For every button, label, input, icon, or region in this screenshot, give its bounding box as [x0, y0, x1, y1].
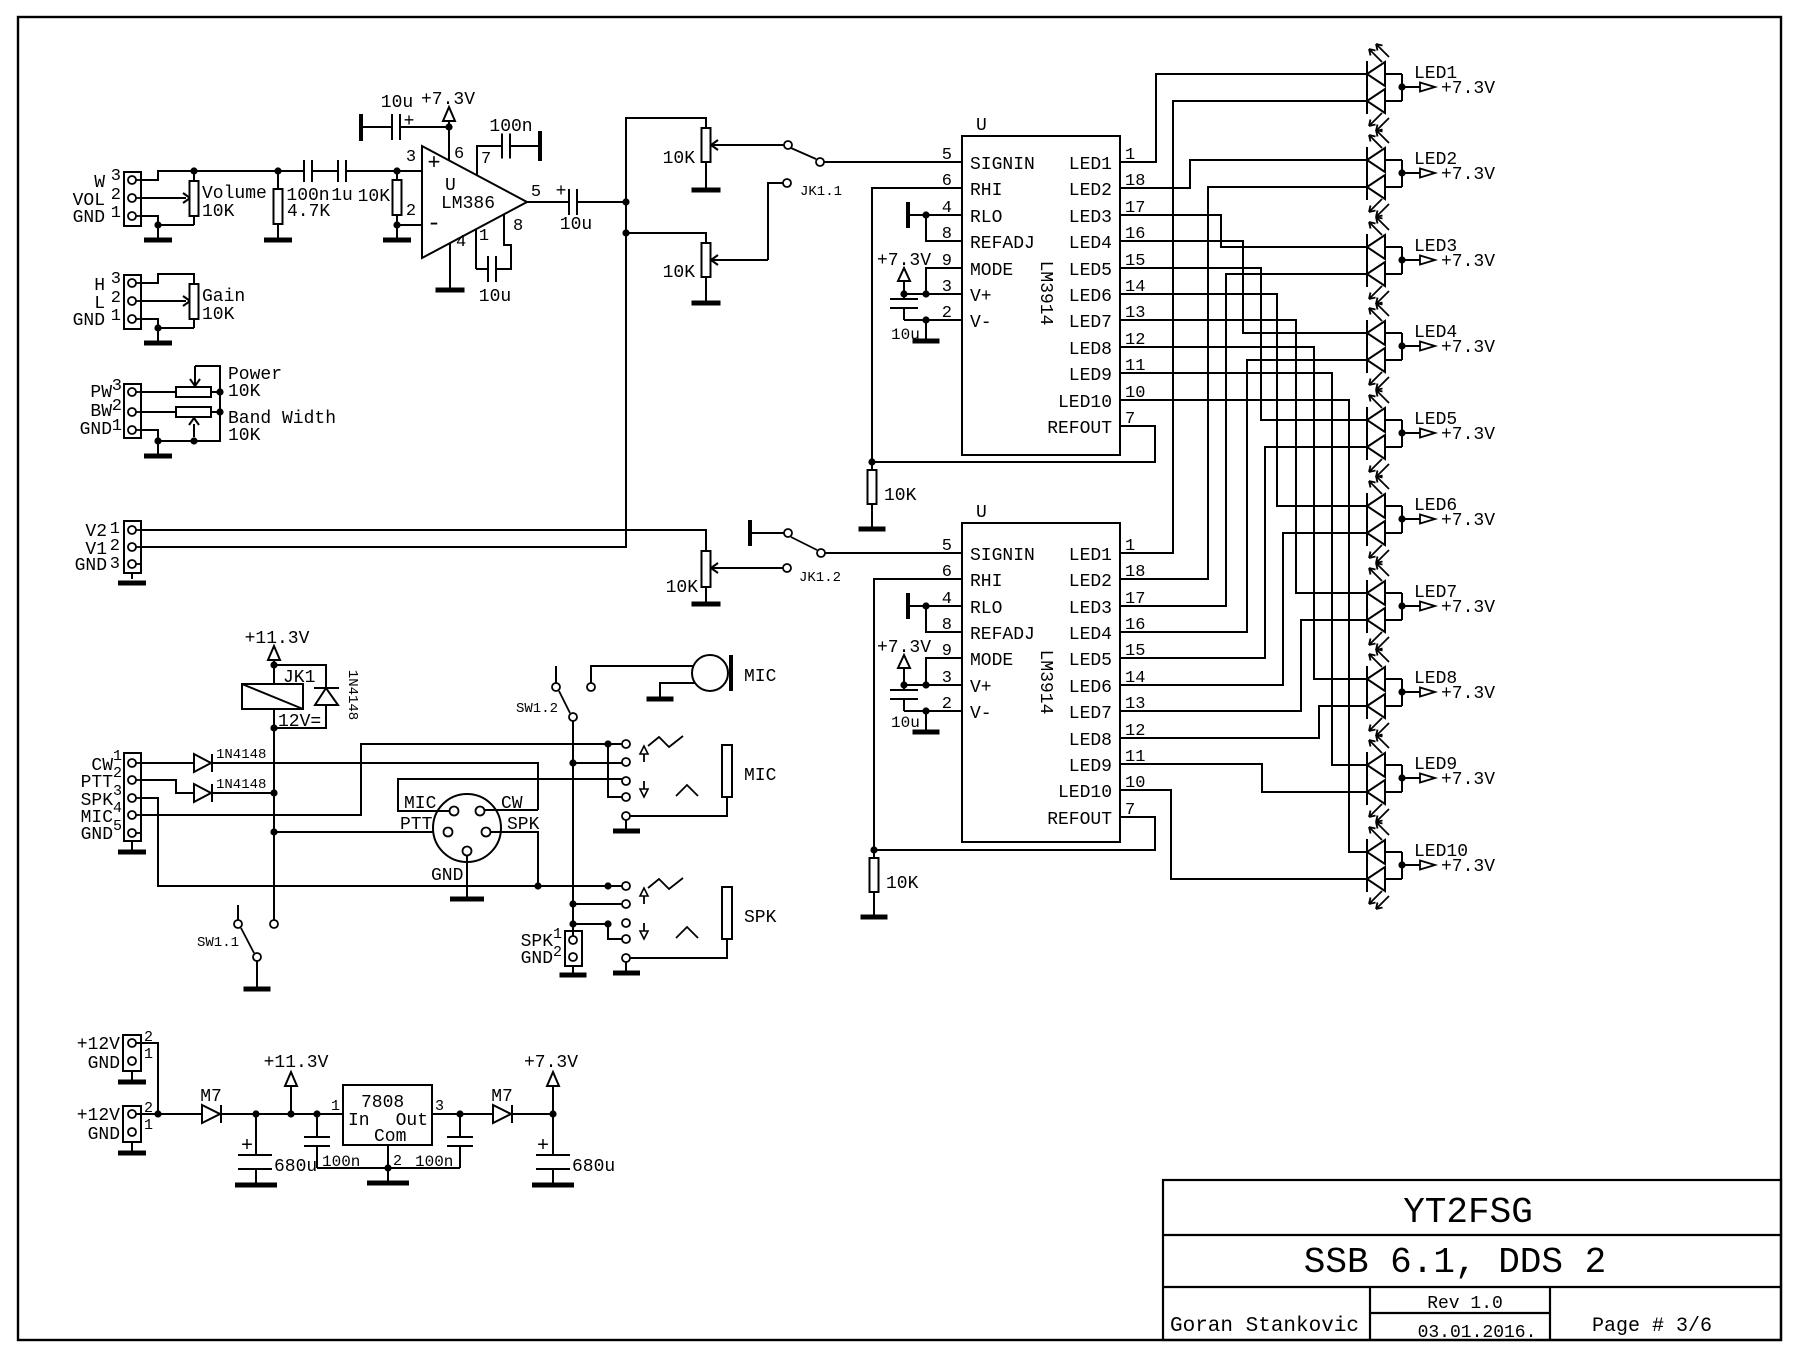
node LED1 anode — [1398, 83, 1405, 90]
wire CN2 pin3 to Gain pot top — [141, 274, 194, 284]
wire U2 LED6 output to LED6 bottom — [1120, 533, 1367, 685]
diode 1N4148 flyback — [274, 688, 339, 728]
svg-text:+7.3V: +7.3V — [1441, 684, 1495, 704]
diode M7 input — [202, 1105, 221, 1123]
svg-text:3: 3 — [435, 1098, 444, 1115]
svg-text:SPK: SPK — [744, 908, 777, 928]
capacitor 1u input — [338, 160, 346, 182]
svg-text:+12V: +12V — [77, 1035, 120, 1055]
node DIN PTT junction — [270, 828, 277, 835]
svg-text:+7.3V: +7.3V — [1441, 338, 1495, 358]
terminal bar JK1.2 throw1 — [748, 520, 752, 546]
svg-text:V+: V+ — [970, 678, 992, 698]
svg-text:LED10: LED10 — [1058, 393, 1112, 413]
U2 pin 2 name V- — [942, 695, 992, 724]
svg-text:M7: M7 — [200, 1087, 222, 1107]
svg-text:8: 8 — [513, 217, 523, 236]
power +11.3V arrow relay — [268, 646, 280, 665]
capacitor 10u U1 supply — [890, 294, 918, 320]
wire audio branch to pot2 — [626, 233, 706, 243]
wire CN8 pin2 to diode — [136, 1113, 202, 1115]
U1 pin 17 name LED3 — [1069, 199, 1146, 228]
svg-text:GND: GND — [88, 1125, 120, 1145]
svg-text:1: 1 — [331, 1098, 340, 1115]
pin numbers CN5 1-5 — [113, 748, 122, 835]
svg-text:JK1.1: JK1.1 — [800, 184, 842, 200]
U1 pin 12 name LED8 — [1069, 331, 1146, 360]
connector CN1 (W/VOL/GND) 3-pin header — [124, 172, 141, 226]
wire U2 LED9 output to LED9 bottom — [1120, 764, 1367, 792]
jack SPK ring spring — [676, 927, 698, 938]
svg-text:Volume: Volume — [202, 184, 267, 204]
svg-text:+11.3V: +11.3V — [264, 1053, 329, 1073]
wire mic to ground — [660, 683, 695, 697]
wire U1 LED4 output to LED4 top — [1120, 241, 1367, 333]
svg-text:In: In — [348, 1111, 370, 1131]
svg-text:+7.3V: +7.3V — [1441, 425, 1495, 445]
wire U2 RHI — [874, 579, 962, 850]
ground U2 V- — [913, 711, 940, 732]
wire MIC jack tip to contact4 — [608, 744, 622, 797]
diode D2 1N4148 PTT — [141, 780, 212, 802]
wire U2 LED2 output to LED2 bottom — [1120, 187, 1367, 579]
node SPK tie — [569, 920, 576, 927]
node rail at 4.7K — [274, 167, 281, 174]
svg-text:1: 1 — [111, 307, 121, 326]
wire DIN PTT row — [274, 831, 444, 833]
svg-text:+: + — [537, 1135, 549, 1158]
U2 pin 7 name REFOUT — [1047, 801, 1135, 830]
node 100n output cap — [456, 1110, 463, 1117]
power +7.3V arrow U1 — [877, 251, 931, 294]
U2 pin 1 name LED1 — [1069, 537, 1135, 566]
power +7.3V arrow LED2 — [1402, 169, 1435, 178]
svg-text:LED9: LED9 — [1069, 757, 1112, 777]
LED3 dual LED — [1367, 217, 1402, 304]
svg-text:GND: GND — [521, 949, 553, 969]
node LED10 anode — [1398, 861, 1405, 868]
jack SPK contacts — [622, 882, 630, 962]
svg-text:PW: PW — [90, 383, 112, 403]
node LED5 anode — [1398, 429, 1405, 436]
svg-text:2: 2 — [553, 944, 562, 961]
svg-text:+7.3V: +7.3V — [1441, 857, 1495, 877]
LED10 dual LED — [1367, 822, 1402, 909]
node U2 RHI/REFOUT — [870, 846, 877, 853]
LED1 dual LED — [1367, 44, 1402, 131]
wire U2 RLO to REFADJ — [908, 602, 962, 632]
svg-text:SW1.1: SW1.1 — [197, 935, 239, 951]
ground — [144, 225, 172, 240]
svg-text:LED8: LED8 — [1069, 340, 1112, 360]
wire 7808 Com to ground rail — [387, 1145, 389, 1168]
svg-text:Com: Com — [374, 1127, 406, 1147]
U1 pin 7 name REFOUT — [1047, 410, 1135, 439]
wire CW line to DIN — [212, 763, 538, 810]
capacitor 100n 7808 input — [304, 1114, 330, 1168]
svg-text:GND: GND — [80, 420, 112, 440]
svg-text:10u: 10u — [891, 714, 920, 732]
wire M7 output to +7.3V node — [512, 1113, 553, 1115]
node +12V input — [154, 1110, 161, 1117]
svg-text:+11.3V: +11.3V — [245, 629, 310, 649]
svg-text:U: U — [976, 503, 987, 523]
jack MIC tip spring — [648, 736, 683, 747]
LED4 dual LED — [1367, 303, 1402, 390]
svg-text:U: U — [445, 176, 456, 196]
svg-text:LED1: LED1 — [1069, 546, 1112, 566]
svg-text:2: 2 — [406, 202, 416, 221]
svg-text:10u: 10u — [560, 215, 592, 235]
wire U2 LED1 output to LED1 bottom — [1120, 101, 1367, 553]
svg-text:RHI: RHI — [970, 181, 1002, 201]
wire CN7 to +12V node — [136, 1043, 158, 1114]
U2 pin 13 name LED7 — [1069, 695, 1146, 724]
capacitor 100n pin7 LM386 — [502, 134, 540, 159]
wire M7 to 7808 In — [221, 1113, 343, 1115]
U2 pin 11 name LED9 — [1069, 748, 1146, 777]
wire U2 MODE to V+ — [926, 658, 962, 685]
wire SPK jack contact3 tie — [573, 923, 608, 925]
svg-text:10K: 10K — [886, 874, 919, 894]
ground — [144, 328, 172, 343]
op-amp U LM386 — [422, 146, 527, 258]
svg-text:1N4148: 1N4148 — [216, 777, 266, 793]
ground CN4 pin3 — [118, 573, 146, 583]
svg-text:JK1: JK1 — [283, 668, 315, 688]
power +7.3V arrow LED4 — [1402, 342, 1435, 351]
wire CN2 pin1 to ground node — [141, 319, 158, 328]
svg-text:5: 5 — [113, 818, 122, 835]
svg-text:SIGNIN: SIGNIN — [970, 155, 1035, 175]
power +7.3V arrow LM386 — [443, 107, 455, 127]
svg-text:GND: GND — [75, 556, 107, 576]
svg-text:U: U — [976, 116, 987, 136]
svg-text:LED7: LED7 — [1069, 704, 1112, 724]
pin numbers CN3 3/2/1 — [112, 377, 122, 436]
wire JK1.2 throw1 — [752, 532, 784, 534]
svg-text:BW: BW — [90, 402, 112, 422]
svg-text:10K: 10K — [228, 382, 261, 402]
capacitor 100n 7808 output — [447, 1114, 473, 1168]
power +7.3V arrow LED7 — [1402, 602, 1435, 611]
wire relay top to flyback diode — [274, 665, 326, 688]
svg-text:LED4: LED4 — [1069, 625, 1112, 645]
node wiper-ground junction — [190, 437, 197, 444]
node LED7 anode — [1398, 602, 1405, 609]
capacitor 10u pins1-8 LM386 — [476, 256, 496, 282]
svg-text:LED5: LED5 — [1069, 651, 1112, 671]
U1 pin 13 name LED7 — [1069, 304, 1146, 333]
pin numbers CN8 2/1 — [144, 1100, 153, 1134]
power +11.3V arrow supply — [285, 1072, 297, 1114]
wire U2 LED7 output to LED7 bottom — [1120, 620, 1367, 711]
svg-text:+12V: +12V — [77, 1106, 120, 1126]
ground pot1 — [692, 189, 721, 191]
svg-text:GND: GND — [73, 311, 105, 331]
capacitor 10u output — [569, 189, 577, 215]
connector CN8 (+12V/GND) lower — [123, 1106, 141, 1142]
svg-text:Page # 3/6: Page # 3/6 — [1592, 1315, 1712, 1338]
svg-text:GND: GND — [81, 825, 113, 845]
svg-text:+7.3V: +7.3V — [1441, 598, 1495, 618]
svg-text:MODE: MODE — [970, 261, 1013, 281]
wire U2 LED5 output to LED5 bottom — [1120, 447, 1367, 658]
power +7.3V arrow LED3 — [1402, 256, 1435, 265]
wire to MIC jack contact2 — [573, 762, 622, 764]
wire U1 RHI — [872, 188, 962, 462]
svg-text:1: 1 — [144, 1046, 153, 1063]
svg-text:LED1: LED1 — [1069, 155, 1112, 175]
node ground CN1 — [154, 221, 161, 228]
jack SPK switch arrows — [640, 888, 648, 939]
pin numbers CN1 3/2/1 — [111, 167, 121, 223]
svg-text:+7.3V: +7.3V — [1441, 165, 1495, 185]
power +7.3V arrow LED10 — [1402, 861, 1435, 870]
svg-text:680u: 680u — [274, 1157, 317, 1177]
node +11.3V supply — [287, 1110, 294, 1117]
IC U LM3914 lower body — [962, 523, 1120, 842]
svg-text:2: 2 — [111, 186, 121, 205]
svg-text:3: 3 — [111, 270, 121, 289]
svg-text:RLO: RLO — [970, 208, 1002, 228]
power +7.3V arrow LED6 — [1402, 515, 1435, 524]
wire CN5 MIC riser — [141, 744, 622, 815]
svg-text:1: 1 — [111, 204, 121, 223]
svg-text:JK1.2: JK1.2 — [799, 570, 841, 586]
node SPK jack contact1 — [604, 882, 611, 889]
svg-text:+: + — [241, 1135, 253, 1158]
power +7.3V arrow LED9 — [1402, 774, 1435, 783]
resistor 10K U1 ref — [868, 462, 877, 527]
node SW1.2 to MIC jack ring — [569, 759, 576, 766]
svg-text:2: 2 — [111, 289, 121, 308]
connector CN3 (PW/BW/GND) 3-pin header — [124, 384, 141, 438]
svg-text:3: 3 — [406, 148, 416, 167]
ground SW1.1 — [244, 961, 271, 989]
U2 pin 9 name MODE — [942, 642, 1013, 671]
ground LM386 pin4 — [436, 289, 465, 291]
svg-text:1: 1 — [479, 227, 489, 246]
svg-text:LED2: LED2 — [1069, 181, 1112, 201]
svg-text:LED9: LED9 — [1069, 366, 1112, 386]
svg-text:LED10: LED10 — [1058, 783, 1112, 803]
U2 pin 3 name V+ — [942, 669, 992, 698]
svg-text:10K: 10K — [228, 426, 261, 446]
svg-text:10u: 10u — [479, 287, 511, 307]
node Com ground — [384, 1164, 391, 1171]
svg-text:10K: 10K — [358, 187, 391, 207]
connector CN7 (+12V/GND) upper — [123, 1035, 141, 1071]
diode M7 output — [493, 1105, 512, 1123]
U2 pin 8 name REFADJ — [942, 616, 1035, 645]
wire U2 V+ — [900, 681, 962, 688]
wire U1 LED3 output to LED3 top — [1120, 215, 1367, 247]
ground — [264, 233, 292, 240]
wire U1 LED7 output to LED7 top — [1120, 320, 1367, 593]
svg-text:LED7: LED7 — [1069, 313, 1112, 333]
svg-text:GND: GND — [88, 1054, 120, 1074]
U2 pin 14 name LED6 — [1069, 669, 1146, 698]
node ground CN3 — [154, 437, 161, 444]
wire U2 V- — [904, 707, 962, 714]
potentiometer 10K third (pot3) — [702, 551, 784, 604]
U2 pin 10 name LED10 — [1058, 774, 1145, 803]
svg-text:REFADJ: REFADJ — [970, 625, 1035, 645]
LED6 dual LED — [1367, 476, 1402, 563]
pin 8 wire LM386 — [497, 214, 511, 269]
node LED2 anode — [1398, 169, 1405, 176]
svg-text:H: H — [94, 276, 105, 296]
wire U2 LED8 output to LED8 bottom — [1120, 706, 1367, 738]
svg-text:1: 1 — [553, 926, 562, 943]
U1 pin 16 name LED4 — [1069, 225, 1146, 254]
connector CN5 (CW/PTT/SPK/MIC/GND) 5-pin header — [124, 753, 141, 841]
capacitor 680u input — [238, 1114, 272, 1183]
svg-text:RHI: RHI — [970, 572, 1002, 592]
wire U2 REFOUT loop — [874, 817, 1155, 850]
LED5 dual LED — [1367, 390, 1402, 477]
wire Gain pot bottom to ground — [158, 327, 194, 329]
node +7.3V at pin6 — [445, 123, 452, 130]
pin 6 wire LM386 — [448, 127, 450, 160]
node U1 RHI/REFOUT — [868, 458, 875, 465]
node rail at 10K — [393, 167, 400, 174]
svg-text:+: + — [556, 182, 567, 202]
ground CN6 — [560, 966, 587, 975]
ground 7808 Com — [367, 1168, 409, 1183]
U1 pin 8 name REFADJ — [942, 225, 1035, 254]
jack MIC switch arrows — [640, 746, 648, 797]
microphone MIC symbol — [692, 655, 731, 691]
wire U1 V- — [904, 316, 962, 323]
wire CN3 pin1 to ground node — [141, 430, 158, 441]
power +7.3V arrow LED5 — [1402, 429, 1435, 438]
svg-text:5: 5 — [942, 537, 952, 556]
svg-text:V2: V2 — [85, 522, 107, 542]
wire DIN CW pin — [484, 809, 538, 811]
terminal bar 100n pin7 — [538, 131, 542, 161]
svg-text:Goran Stankovic: Goran Stankovic — [1170, 1315, 1359, 1338]
wire signal rail to 100n cap — [194, 170, 304, 172]
svg-text:10K: 10K — [202, 305, 235, 325]
ground 680u output — [532, 1183, 574, 1185]
svg-text:680u: 680u — [572, 1157, 615, 1177]
wire DIN MIC pin loop — [398, 779, 622, 811]
U2 pin 6 name RHI — [942, 563, 1003, 592]
wire JK1.2 to U2 SIGNIN — [825, 552, 962, 554]
node 100n input cap — [313, 1110, 320, 1117]
svg-text:PTT: PTT — [400, 815, 433, 835]
svg-text:10K: 10K — [663, 263, 696, 283]
switch JK1.1 — [783, 141, 824, 187]
wire U1 LED8 output to LED8 top — [1120, 347, 1367, 679]
U1 pin 5 name SIGNIN — [942, 146, 1035, 175]
U1 pin 6 name RHI — [942, 172, 1003, 201]
jack SPK tip spring — [648, 878, 683, 889]
svg-text:2: 2 — [110, 537, 120, 556]
U2 pin 15 name LED5 — [1069, 642, 1146, 671]
svg-text:6: 6 — [454, 145, 464, 164]
IC U LM3914 upper body — [962, 136, 1120, 455]
wire 7808 Out to diode M7 — [432, 1113, 493, 1115]
svg-text:MIC: MIC — [744, 667, 777, 687]
svg-text:LED4: LED4 — [1069, 234, 1112, 254]
svg-text:PTT: PTT — [81, 773, 114, 793]
wire CN5 SPK to speaker line — [141, 798, 622, 886]
ground mic — [647, 697, 674, 699]
connector DIN5 microphone socket — [433, 794, 501, 862]
wire pot2 wiper to JK1.1 throw — [768, 183, 783, 260]
jack MIC body — [630, 745, 732, 816]
wire U1 LED9 output to LED9 top — [1120, 373, 1367, 765]
pin numbers CN2 3/2/1 — [111, 270, 121, 326]
jack SPK body — [630, 887, 732, 958]
U1 pin 9 name MODE — [942, 252, 1013, 281]
svg-text:4: 4 — [113, 800, 122, 817]
pin numbers CN6 1/2 — [553, 926, 562, 961]
potentiometer Volume 10K — [141, 171, 199, 225]
jack MIC ring spring — [676, 785, 698, 796]
svg-text:10K: 10K — [202, 202, 235, 222]
pin numbers CN4 1/2/3 — [110, 520, 120, 574]
svg-text:SSB 6.1, DDS 2: SSB 6.1, DDS 2 — [1304, 1242, 1606, 1283]
svg-text:2: 2 — [113, 765, 122, 782]
LED8 dual LED — [1367, 649, 1402, 736]
svg-text:7808: 7808 — [361, 1093, 404, 1113]
potentiometer 10K second (meter drive 2) — [702, 243, 769, 303]
node LED6 anode — [1398, 515, 1405, 522]
svg-text:10u: 10u — [381, 93, 413, 113]
pin 4 wire LM386 — [449, 243, 451, 290]
ground — [144, 441, 172, 456]
svg-text:5: 5 — [942, 146, 952, 165]
capacitor 10u U2 supply — [890, 685, 918, 711]
capacitor 100n input — [304, 160, 338, 182]
wire supply bottom rail — [317, 1167, 460, 1169]
wire pots right side down to ground rail — [158, 392, 220, 441]
ground U2 ref resistor — [861, 915, 888, 917]
power +7.3V arrow U2 — [877, 638, 931, 685]
terminal bar U1 RLO — [906, 202, 910, 228]
wire JK1.1 to U1 SIGNIN — [824, 161, 962, 163]
pin 1 wire LM386 — [475, 229, 477, 269]
svg-text:3: 3 — [113, 783, 122, 800]
svg-text:LED6: LED6 — [1069, 287, 1112, 307]
regulator 7808 — [343, 1085, 432, 1145]
node SPK line at jack feed — [569, 900, 576, 907]
ground CN7 — [118, 1071, 146, 1082]
node Power pot right — [216, 388, 223, 395]
svg-text:V-: V- — [970, 313, 992, 333]
node PTT diode junction — [270, 789, 277, 796]
wire CN1 pin3 to signal rail — [141, 171, 194, 180]
svg-text:Rev 1.0: Rev 1.0 — [1427, 1294, 1503, 1314]
wire CN1 pin1 to ground node — [141, 216, 158, 225]
ground jack SPK sleeve — [613, 962, 640, 973]
wire U1 LED6 output to LED6 top — [1120, 294, 1367, 506]
ground jack MIC sleeve — [613, 820, 640, 831]
svg-text:+7.3V: +7.3V — [1441, 511, 1495, 531]
resistor 10K U2 ref — [870, 850, 879, 915]
wire U1 V+ — [900, 290, 962, 297]
wire U1 RLO to REFADJ — [908, 211, 962, 241]
svg-text:Gain: Gain — [202, 287, 245, 307]
svg-text:SW1.2: SW1.2 — [516, 701, 558, 717]
ground U1 V- — [913, 320, 940, 341]
node MIC jack tip tie — [604, 740, 611, 747]
svg-text:M7: M7 — [491, 1087, 513, 1107]
